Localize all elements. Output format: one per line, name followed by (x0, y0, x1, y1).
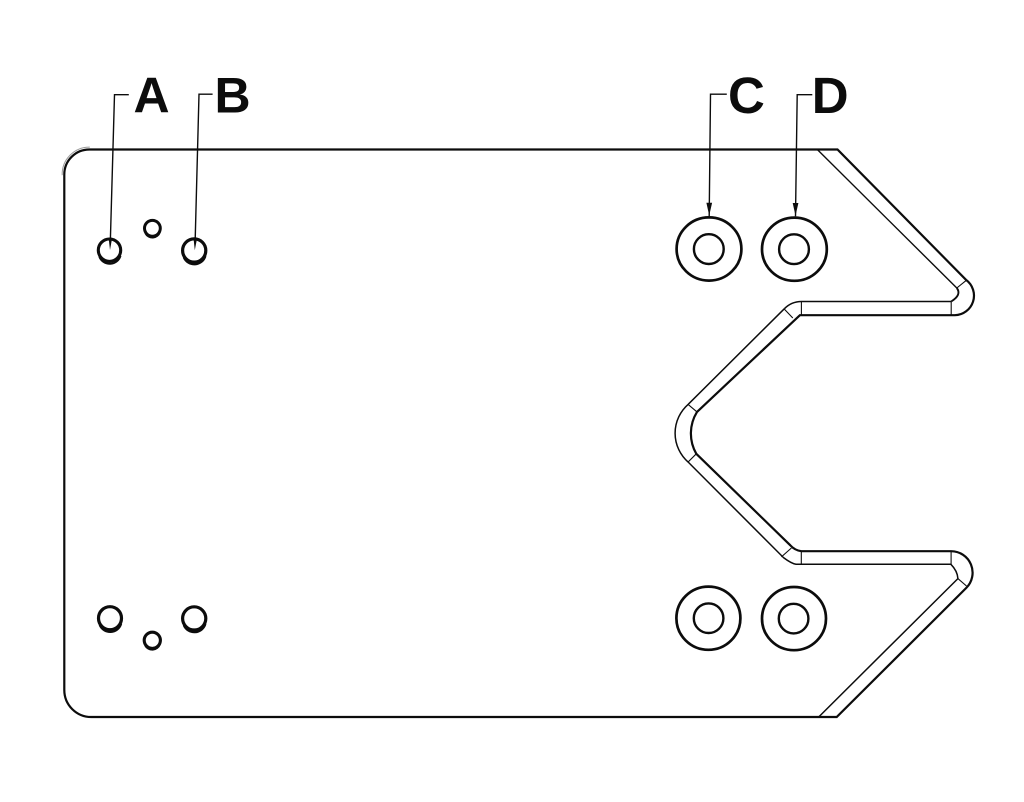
bottom-face (thickness) edge: top-right diagonal (817, 150, 957, 289)
svg-text:C: C (728, 67, 765, 124)
washer bottom-right (762, 587, 826, 650)
washer D (top) (762, 218, 827, 281)
small arc joining to notch-top line (951, 288, 958, 302)
faint outer corner arc top-left (62, 147, 90, 175)
svg-text:A: A (134, 67, 170, 123)
tick: top prong fillet boundary (957, 280, 966, 288)
bottom-left small hole 1 (99, 607, 122, 632)
ticks (fillet boundary marks) (688, 280, 966, 586)
small middle hole (top) (145, 220, 161, 237)
leader A (110, 95, 128, 239)
hole B (top-left small hole) (183, 239, 206, 264)
hole A (top-left small hole) (98, 239, 120, 264)
bottom-left small hole 2 (183, 607, 206, 632)
washer C (top) (677, 217, 742, 280)
svg-text:D: D (812, 67, 849, 124)
notch top thin horizontal (784, 302, 951, 309)
leader C with arrow (709, 94, 727, 216)
bottom small middle hole (144, 632, 160, 650)
washer bottom-left (676, 587, 740, 650)
leader B (195, 94, 212, 239)
svg-text:B: B (215, 67, 251, 123)
bottom-face edge: notch V diagonals and lower horizontal (675, 309, 958, 717)
plate outline (top face silhouette) (64, 150, 974, 718)
leader D with arrow (796, 95, 813, 217)
